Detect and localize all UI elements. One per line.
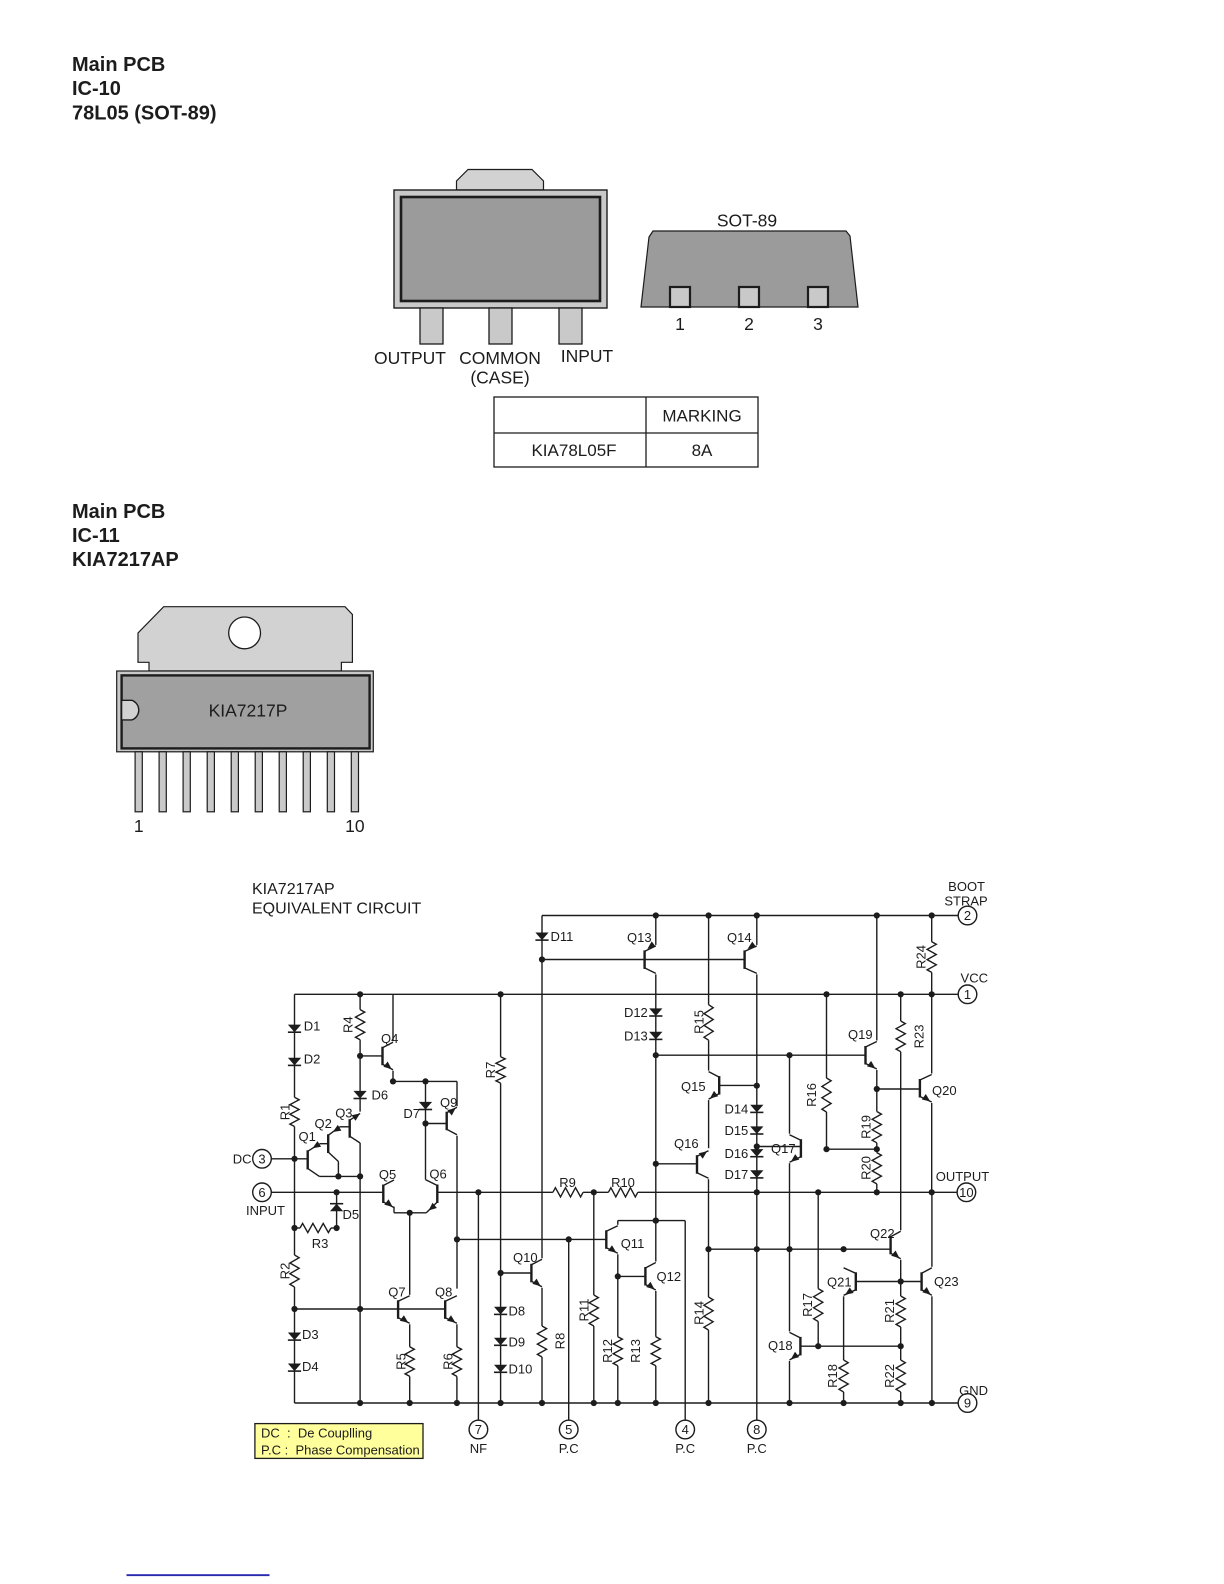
svg-text:OUTPUT: OUTPUT (936, 1169, 990, 1184)
svg-text:D11: D11 (551, 929, 574, 944)
svg-text:GND: GND (959, 1383, 988, 1398)
svg-text:2: 2 (964, 908, 971, 923)
svg-text:MARKING: MARKING (662, 407, 741, 426)
svg-text:Main PCB: Main PCB (72, 54, 165, 76)
svg-text:1: 1 (675, 314, 685, 334)
svg-text:Q13: Q13 (627, 930, 652, 945)
svg-text:Q20: Q20 (932, 1083, 957, 1098)
svg-text:R3: R3 (312, 1236, 329, 1251)
svg-text:R12: R12 (600, 1339, 615, 1363)
svg-text:D6: D6 (372, 1088, 389, 1103)
svg-text:D7: D7 (403, 1106, 420, 1121)
svg-text:R21: R21 (882, 1299, 897, 1323)
svg-text:R18: R18 (825, 1364, 840, 1388)
svg-text:2: 2 (744, 314, 754, 334)
svg-text:D12: D12 (624, 1005, 648, 1020)
svg-text:Q2: Q2 (315, 1116, 332, 1131)
svg-text:3: 3 (258, 1151, 265, 1166)
svg-text:R20: R20 (858, 1156, 873, 1180)
svg-text:4: 4 (682, 1422, 689, 1437)
svg-text:R9: R9 (559, 1175, 576, 1190)
svg-text:R5: R5 (393, 1353, 408, 1370)
svg-text:R11: R11 (576, 1299, 591, 1322)
svg-text:8A: 8A (692, 441, 713, 460)
svg-text:P.C: P.C (747, 1441, 767, 1456)
svg-text:EQUIVALENT CIRCUIT: EQUIVALENT CIRCUIT (252, 901, 421, 918)
svg-text:R13: R13 (628, 1339, 643, 1363)
svg-text:8: 8 (753, 1422, 760, 1437)
svg-text:1: 1 (964, 987, 971, 1002)
svg-text:NF: NF (470, 1441, 487, 1456)
svg-text:R22: R22 (882, 1364, 897, 1388)
svg-text:KIA7217AP: KIA7217AP (72, 549, 179, 571)
svg-text:INPUT: INPUT (246, 1203, 285, 1218)
svg-text:IC-11: IC-11 (72, 525, 120, 547)
svg-text:BOOT: BOOT (948, 879, 985, 894)
svg-text:Q14: Q14 (727, 930, 752, 945)
svg-text:(CASE): (CASE) (470, 368, 529, 388)
svg-text:KIA78L05F: KIA78L05F (531, 441, 616, 460)
svg-text:R15: R15 (691, 1010, 706, 1034)
svg-text:Main PCB: Main PCB (72, 501, 165, 523)
svg-text:R6: R6 (440, 1353, 455, 1370)
svg-text:R24: R24 (913, 945, 928, 969)
svg-text:Q8: Q8 (435, 1285, 452, 1300)
svg-text:DC: DC (233, 1151, 252, 1166)
svg-text:7: 7 (475, 1422, 482, 1437)
svg-text:R2: R2 (277, 1263, 292, 1280)
svg-text:D8: D8 (509, 1304, 526, 1319)
svg-text:P.C: P.C (675, 1441, 695, 1456)
svg-text:Q7: Q7 (388, 1285, 405, 1300)
svg-text:R19: R19 (858, 1115, 873, 1139)
svg-text:IC-10: IC-10 (72, 78, 121, 100)
svg-text:D14: D14 (724, 1102, 748, 1117)
svg-text:COMMON: COMMON (459, 348, 541, 368)
svg-text:Q21: Q21 (827, 1275, 852, 1290)
svg-text:Q3: Q3 (335, 1106, 352, 1121)
svg-text:10: 10 (959, 1185, 973, 1200)
svg-text:KIA7217P: KIA7217P (209, 701, 288, 721)
svg-text:Q15: Q15 (681, 1079, 706, 1094)
svg-text:D17: D17 (724, 1167, 748, 1182)
svg-text:P.C: P.C (559, 1441, 579, 1456)
svg-text:VCC: VCC (961, 970, 988, 985)
svg-text:Q17: Q17 (771, 1141, 796, 1156)
svg-text:Q10: Q10 (513, 1250, 538, 1265)
svg-text:1: 1 (134, 816, 144, 836)
svg-text:D5: D5 (343, 1207, 360, 1222)
svg-text:R23: R23 (911, 1025, 926, 1049)
svg-text:Q1: Q1 (299, 1129, 316, 1144)
svg-text:Q6: Q6 (429, 1167, 446, 1182)
svg-text:Q9: Q9 (440, 1095, 457, 1110)
svg-text:OUTPUT: OUTPUT (374, 348, 446, 368)
svg-text:Q22: Q22 (870, 1226, 895, 1241)
svg-text:5: 5 (565, 1422, 572, 1437)
svg-text:10: 10 (345, 816, 365, 836)
svg-text:D1: D1 (304, 1019, 321, 1034)
svg-text:KIA7217AP: KIA7217AP (252, 881, 335, 898)
svg-text:D3: D3 (302, 1327, 319, 1342)
svg-text:Q19: Q19 (848, 1027, 873, 1042)
svg-text:INPUT: INPUT (561, 346, 614, 366)
svg-text:D9: D9 (509, 1335, 526, 1350)
svg-text:Q5: Q5 (379, 1167, 396, 1182)
svg-text:R4: R4 (340, 1016, 355, 1033)
svg-text:R8: R8 (553, 1333, 568, 1350)
svg-text:SOT-89: SOT-89 (717, 211, 777, 231)
svg-text:R1: R1 (277, 1104, 292, 1121)
svg-text:D15: D15 (724, 1123, 748, 1138)
svg-text:DC : De Couplling: DC : De Couplling (261, 1425, 372, 1440)
svg-text:D2: D2 (304, 1052, 321, 1067)
svg-text:3: 3 (813, 314, 823, 334)
svg-text:R7: R7 (483, 1062, 498, 1079)
svg-text:D10: D10 (509, 1362, 533, 1377)
svg-text:P.C : Phase Compensation: P.C : Phase Compensation (261, 1442, 420, 1457)
svg-text:STRAP: STRAP (944, 893, 987, 908)
svg-text:R10: R10 (611, 1175, 635, 1190)
svg-text:6: 6 (258, 1185, 265, 1200)
svg-text:Q12: Q12 (657, 1269, 682, 1284)
svg-text:R14: R14 (691, 1301, 706, 1325)
svg-text:Q16: Q16 (674, 1136, 699, 1151)
svg-text:78L05 (SOT-89): 78L05 (SOT-89) (72, 103, 217, 125)
svg-text:R16: R16 (804, 1083, 819, 1107)
svg-text:D4: D4 (302, 1359, 319, 1374)
svg-text:R17: R17 (800, 1293, 815, 1317)
svg-text:Q4: Q4 (381, 1031, 398, 1046)
svg-text:Q18: Q18 (768, 1338, 793, 1353)
svg-text:Q11: Q11 (621, 1236, 645, 1251)
svg-text:Q23: Q23 (934, 1274, 959, 1289)
svg-text:D16: D16 (724, 1146, 748, 1161)
svg-text:D13: D13 (624, 1029, 648, 1044)
